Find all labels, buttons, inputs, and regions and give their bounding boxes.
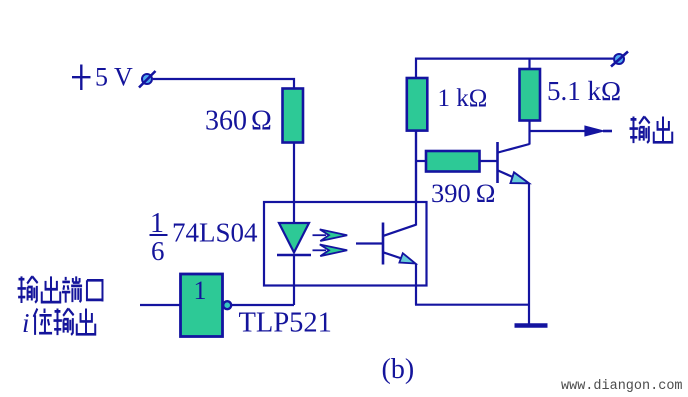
label +5 V [72,63,133,92]
phototransistor collector [384,225,417,236]
char kou [87,280,103,301]
wire Q1 emitter to ground [528,183,530,325]
char wei [34,309,52,335]
wire R2 to 390 ohm node [415,131,417,203]
char chu [42,276,60,302]
phototransistor emitter arrowhead [399,253,415,263]
resistor R1 360 ohm [283,89,304,143]
svg-text:TLP521: TLP521 [239,308,332,339]
wire opto emitter to ground node [415,304,529,306]
wire phototransistor collector to R2 [415,131,417,226]
transistor Q1 emitter arrowhead [511,172,530,183]
inverter output bubble [223,301,231,309]
resistor R3 5.1 kohm [520,69,541,121]
svg-text:1: 1 [194,276,207,305]
wire R4 to Q1 base [480,160,498,162]
LED D1 cathode bar [277,254,311,257]
label output port (chinese: shu chu duan kou) [18,276,103,303]
char chu [77,309,95,335]
wire node to R4 [416,160,427,162]
svg-text:i: i [22,308,30,338]
transistor Q1 emitter [498,171,524,183]
char chu [654,117,672,143]
char duan [62,276,82,302]
svg-text:www.diangon.com: www.diangon.com [561,379,683,394]
label i-bit output (i + chinese: wei shu chu) [22,308,95,338]
transistor Q1 collector [498,144,530,153]
label 1/6 74LS04 [150,208,259,266]
svg-text:(b): (b) [382,354,415,385]
phototransistor base wire [356,242,383,244]
transistor Q1 bar [496,142,499,183]
svg-text:6: 6 [151,236,165,266]
char shu [54,309,74,336]
wire R1 to optocoupler LED [293,143,295,204]
optocoupler U2 TLP521 box [264,202,427,286]
svg-text:74LS04: 74LS04 [172,218,258,248]
wire top rail to R3 [528,59,530,70]
svg-text:360Ω: 360Ω [205,106,272,137]
wire +5V to R1 [153,79,294,89]
wire top rail [416,59,613,78]
ground [515,323,548,328]
resistor R4 390 ohm [426,151,480,172]
terminal top right [611,52,628,67]
wire opto emitter down [415,264,417,305]
svg-text:5 V: 5 V [95,63,133,92]
wire R3 to collector node [528,121,530,145]
char shu [630,117,650,144]
wire LED cathode to inverter bubble [231,304,294,306]
wire LED cathode down [293,255,295,305]
svg-text:390Ω: 390Ω [431,178,495,208]
terminal +5V input [139,71,156,88]
light arrow 2 [313,245,348,257]
char shu [18,276,38,303]
svg-text:1 kΩ: 1 kΩ [438,85,488,112]
wire LED anode [293,202,295,224]
phototransistor emitter [384,252,413,262]
output arrow [585,126,612,136]
inverter U1 74LS04 gate [181,274,223,337]
wire inverter input [140,304,181,306]
resistor R2 1 kohm [407,78,428,131]
svg-text:5.1 kΩ: 5.1 kΩ [547,76,621,106]
LED D1 triangle [279,223,309,253]
phototransistor bar [382,223,385,265]
label output (chinese: shu chu) [630,117,673,144]
light arrow 1 [313,229,348,241]
wire output branch [530,130,587,132]
